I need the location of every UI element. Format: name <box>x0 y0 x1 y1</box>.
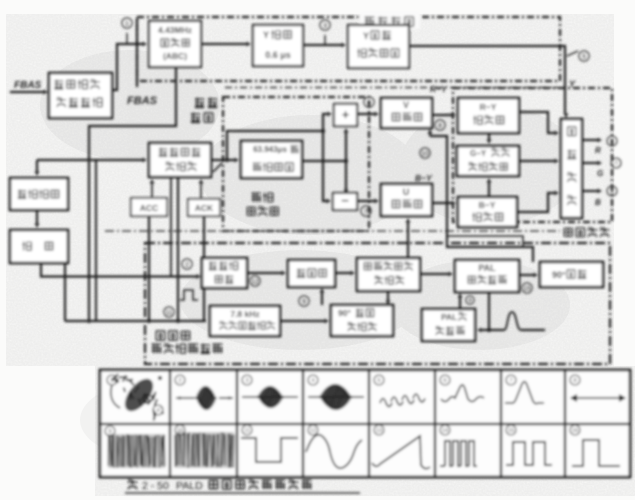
block 63.943us ultrasonic delay line <box>241 141 302 178</box>
block Y delay 0.6us <box>253 25 303 66</box>
block delay 延时 <box>10 230 68 263</box>
block video detector 视频检波及预视放 <box>49 73 112 118</box>
waveform cell 10 noise band <box>175 425 185 435</box>
block V demodulator V解调器 <box>381 98 432 128</box>
solid left edge of luminance container <box>136 18 138 87</box>
block ACK <box>188 199 220 216</box>
svg-text:6: 6 <box>610 139 613 145</box>
svg-text:90°: 90° <box>338 308 351 318</box>
block subcarrier osc amp 副载波振荡及放大 <box>357 258 420 291</box>
svg-text:5: 5 <box>377 378 380 384</box>
label 亮度通道 <box>360 12 420 29</box>
7.8kHz amp to 90deg phase+amp <box>280 320 326 322</box>
svg-text:12: 12 <box>251 278 259 285</box>
waveform cell 9 noise band <box>105 426 115 436</box>
node tick circled 1 <box>126 33 128 43</box>
block 4.43MHz notch 陷波器 <box>149 21 201 67</box>
block B-Y amplifier <box>458 197 517 227</box>
block adder + <box>334 104 357 126</box>
svg-text:PALD: PALD <box>176 480 203 492</box>
svg-text:R: R <box>595 146 601 155</box>
svg-text:U: U <box>403 187 410 197</box>
block R-Y amplifier <box>458 98 519 133</box>
V demod to R-Y amp <box>432 114 453 116</box>
wire video det output up to notch filter <box>112 44 144 90</box>
svg-text:8: 8 <box>610 189 613 195</box>
tick to circled 5 <box>567 51 578 56</box>
svg-text:90°: 90° <box>552 270 566 280</box>
subcarrier osc down to 90deg phase+amp <box>387 291 389 303</box>
delay line output split to adder/subtractor <box>302 160 346 162</box>
svg-text:7: 7 <box>364 208 368 215</box>
svg-text:9: 9 <box>302 298 306 305</box>
svg-text:B−Y: B−Y <box>415 173 433 183</box>
waveform cell 3 chroma burst <box>242 375 252 385</box>
B-Y amp to matrix <box>517 193 556 212</box>
svg-text:(ABC): (ABC) <box>163 51 187 61</box>
waveform cell 6 wave with peak <box>440 375 450 385</box>
waveform cell 11 gate pulse <box>242 425 252 435</box>
svg-text:2: 2 <box>178 378 181 384</box>
label 色度 / 通道 <box>195 98 217 108</box>
burst gate to phase detector <box>247 272 283 274</box>
svg-text:7: 7 <box>614 161 617 167</box>
gate pulse symbol <box>180 290 198 300</box>
waveform cell 1 composite video <box>107 375 117 385</box>
svg-text:−: − <box>341 193 349 208</box>
caption 图2-50 PALD解码器及各点波形 <box>128 480 138 490</box>
waveform cell 5 small sine <box>374 375 384 385</box>
svg-text:0.6 μs: 0.6 μs <box>265 50 291 60</box>
B-Y amp up to G-Y matrix <box>488 181 490 197</box>
block sync separator 同步分离 <box>10 178 68 210</box>
matrix outputs R G B <box>582 139 598 141</box>
dash-dot separator line (chroma box bottom extension) <box>105 230 560 232</box>
waveform table frame <box>100 370 630 477</box>
svg-text:7: 7 <box>509 378 512 384</box>
diagonal stub at chroma output <box>213 163 222 172</box>
svg-text:V: V <box>403 100 409 110</box>
svg-text:+: + <box>342 107 350 122</box>
dashed container: decoder matrix 解码矩阵 <box>453 88 612 222</box>
waveform cell 7 sine cycle <box>506 375 516 385</box>
PAL switch down to ident wire with bell pulse <box>488 292 490 330</box>
svg-text:8: 8 <box>573 378 576 384</box>
label comb filter 梳状滤波器 <box>252 193 274 203</box>
adder to V demod <box>357 113 376 115</box>
subcarrier osc to PAL switch <box>420 273 450 275</box>
svg-text:63.943μs: 63.943μs <box>253 145 287 154</box>
U demod to B-Y amp <box>432 202 453 204</box>
block 7.8kHz ident amp <box>210 306 280 336</box>
block ACC <box>131 198 167 216</box>
svg-text:7.8 kHz: 7.8 kHz <box>230 309 259 319</box>
bell shaped ident pulse <box>504 312 521 330</box>
block 90deg phase shift amp 90°移相及放大 <box>331 305 393 336</box>
waveform cell 8 interval arrow <box>570 375 580 385</box>
G-Y to matrix <box>519 160 556 162</box>
node tick circled 3 <box>324 35 326 45</box>
PAL switch to 90deg shifter <box>519 274 535 276</box>
svg-text:Y: Y <box>363 31 369 41</box>
wire sync sep to delay box <box>36 210 38 225</box>
svg-text:Y: Y <box>263 30 269 40</box>
block 90 deg phase shift 90°相移 <box>540 262 603 287</box>
svg-text:2: 2 <box>185 261 189 268</box>
svg-text:ACC: ACC <box>140 203 158 213</box>
svg-text:11: 11 <box>166 309 173 316</box>
block PAL identification PAL识别电路 <box>422 309 475 341</box>
svg-text:15: 15 <box>523 285 531 292</box>
block burst gate 色同步选通 <box>202 258 247 288</box>
block subtractor - <box>333 193 357 210</box>
dash-dot line below luminance box <box>225 87 558 89</box>
block primary color matrix 基色矩阵 (vertical) <box>561 119 582 218</box>
wire Y delay to Y amp <box>303 44 343 46</box>
svg-text:6: 6 <box>443 378 446 384</box>
chroma bandpass bottom vertical (double) <box>177 177 179 321</box>
svg-text:13: 13 <box>376 428 382 434</box>
wire sync sep right output down <box>64 263 66 321</box>
subtractor to U demod <box>357 200 376 202</box>
svg-text:6: 6 <box>367 99 371 106</box>
wire notch bottom down-left-down chroma takeoff <box>89 67 176 320</box>
subcarrier osc up to U demod <box>407 221 409 257</box>
block Y signal amplifier Y信号放大器等 <box>348 25 409 68</box>
svg-text:ACK: ACK <box>195 203 214 213</box>
svg-text:R−Y: R−Y <box>430 84 448 94</box>
svg-text:12: 12 <box>310 428 316 434</box>
svg-text:FBAS: FBAS <box>14 80 42 91</box>
wire Y amp to color matrix (Y feed) <box>409 46 565 114</box>
svg-text:5: 5 <box>582 53 586 60</box>
waveform cell 4 chroma burst wide <box>308 375 318 385</box>
wire chroma bandpass to delay line + bypass <box>211 159 236 161</box>
dashed container: chroma channel 色度通道 <box>223 97 369 231</box>
svg-text:G: G <box>597 169 603 178</box>
svg-text:16: 16 <box>572 428 578 434</box>
svg-text:3: 3 <box>323 22 327 29</box>
svg-text:PAL: PAL <box>478 263 496 273</box>
label 解码矩阵 <box>564 228 610 238</box>
svg-text:B−Y: B−Y <box>479 200 496 210</box>
svg-text:10: 10 <box>421 150 429 157</box>
svg-text:B: B <box>595 198 601 207</box>
90deg phase+amp up to phase detector <box>321 291 323 305</box>
waveform cell 2 burst packet <box>175 375 185 385</box>
waveform cell 12 sine <box>308 425 318 435</box>
wire tap to chroma bandpass and sync separator <box>37 159 144 161</box>
PAL ident up to PAL switch <box>459 295 461 309</box>
svg-text:Y: Y <box>569 79 576 89</box>
wire FBAS input arrow <box>10 91 45 93</box>
ACC/ACK verticals <box>148 216 150 321</box>
block PAL switch PAL开关电路 <box>455 260 519 292</box>
circled node numbers <box>122 18 132 28</box>
wire delay box down to burst gate <box>41 263 198 277</box>
svg-text:3: 3 <box>245 378 248 384</box>
wire notch to Y delay <box>201 43 248 45</box>
block U demodulator U解调器 <box>381 184 432 216</box>
svg-text:R−Y: R−Y <box>480 102 497 112</box>
svg-text:FBAS: FBAS <box>127 95 158 107</box>
bottom bus into 7.8kHz amp <box>65 320 206 322</box>
svg-text:4.43MHz: 4.43MHz <box>158 25 192 35</box>
waveform cell 13 ramp <box>374 425 384 435</box>
second left bundle vertical <box>95 160 97 321</box>
svg-text:4: 4 <box>468 298 471 304</box>
caption underline <box>125 492 360 494</box>
svg-text:11: 11 <box>244 428 250 434</box>
svg-text:14: 14 <box>442 428 448 434</box>
block chroma bandpass amp 色度带通及放大 <box>149 143 211 177</box>
waveform cell 16 single pulse <box>570 425 580 435</box>
phase det to subcarrier osc <box>335 272 352 274</box>
90deg shifter up to V demod (switched subcarrier) <box>430 136 533 262</box>
waveform cell 15 two pulses <box>506 425 516 435</box>
block phase detector 鉴相器 <box>288 260 335 287</box>
R-Y amp to matrix <box>519 112 556 133</box>
svg-text:15: 15 <box>508 428 514 434</box>
label 基准副载波恢复电路 <box>156 331 190 341</box>
svg-text:1: 1 <box>125 20 129 27</box>
R-Y amp down to G-Y matrix <box>488 133 490 141</box>
svg-text:4: 4 <box>156 408 159 414</box>
svg-text:PAL: PAL <box>441 312 457 322</box>
svg-text:2 - 50: 2 - 50 <box>142 480 169 492</box>
dashed container: reference subcarrier recovery 基准副载波恢复电路 <box>145 243 610 364</box>
svg-text:G−Y: G−Y <box>470 149 487 158</box>
waveform cell 14 pulse train <box>440 425 450 435</box>
svg-text:8: 8 <box>438 122 442 129</box>
svg-text:4: 4 <box>311 378 314 384</box>
block G-Y matrix amp <box>457 146 519 176</box>
dashed container: luminance channel 亮度通道 <box>137 17 560 81</box>
